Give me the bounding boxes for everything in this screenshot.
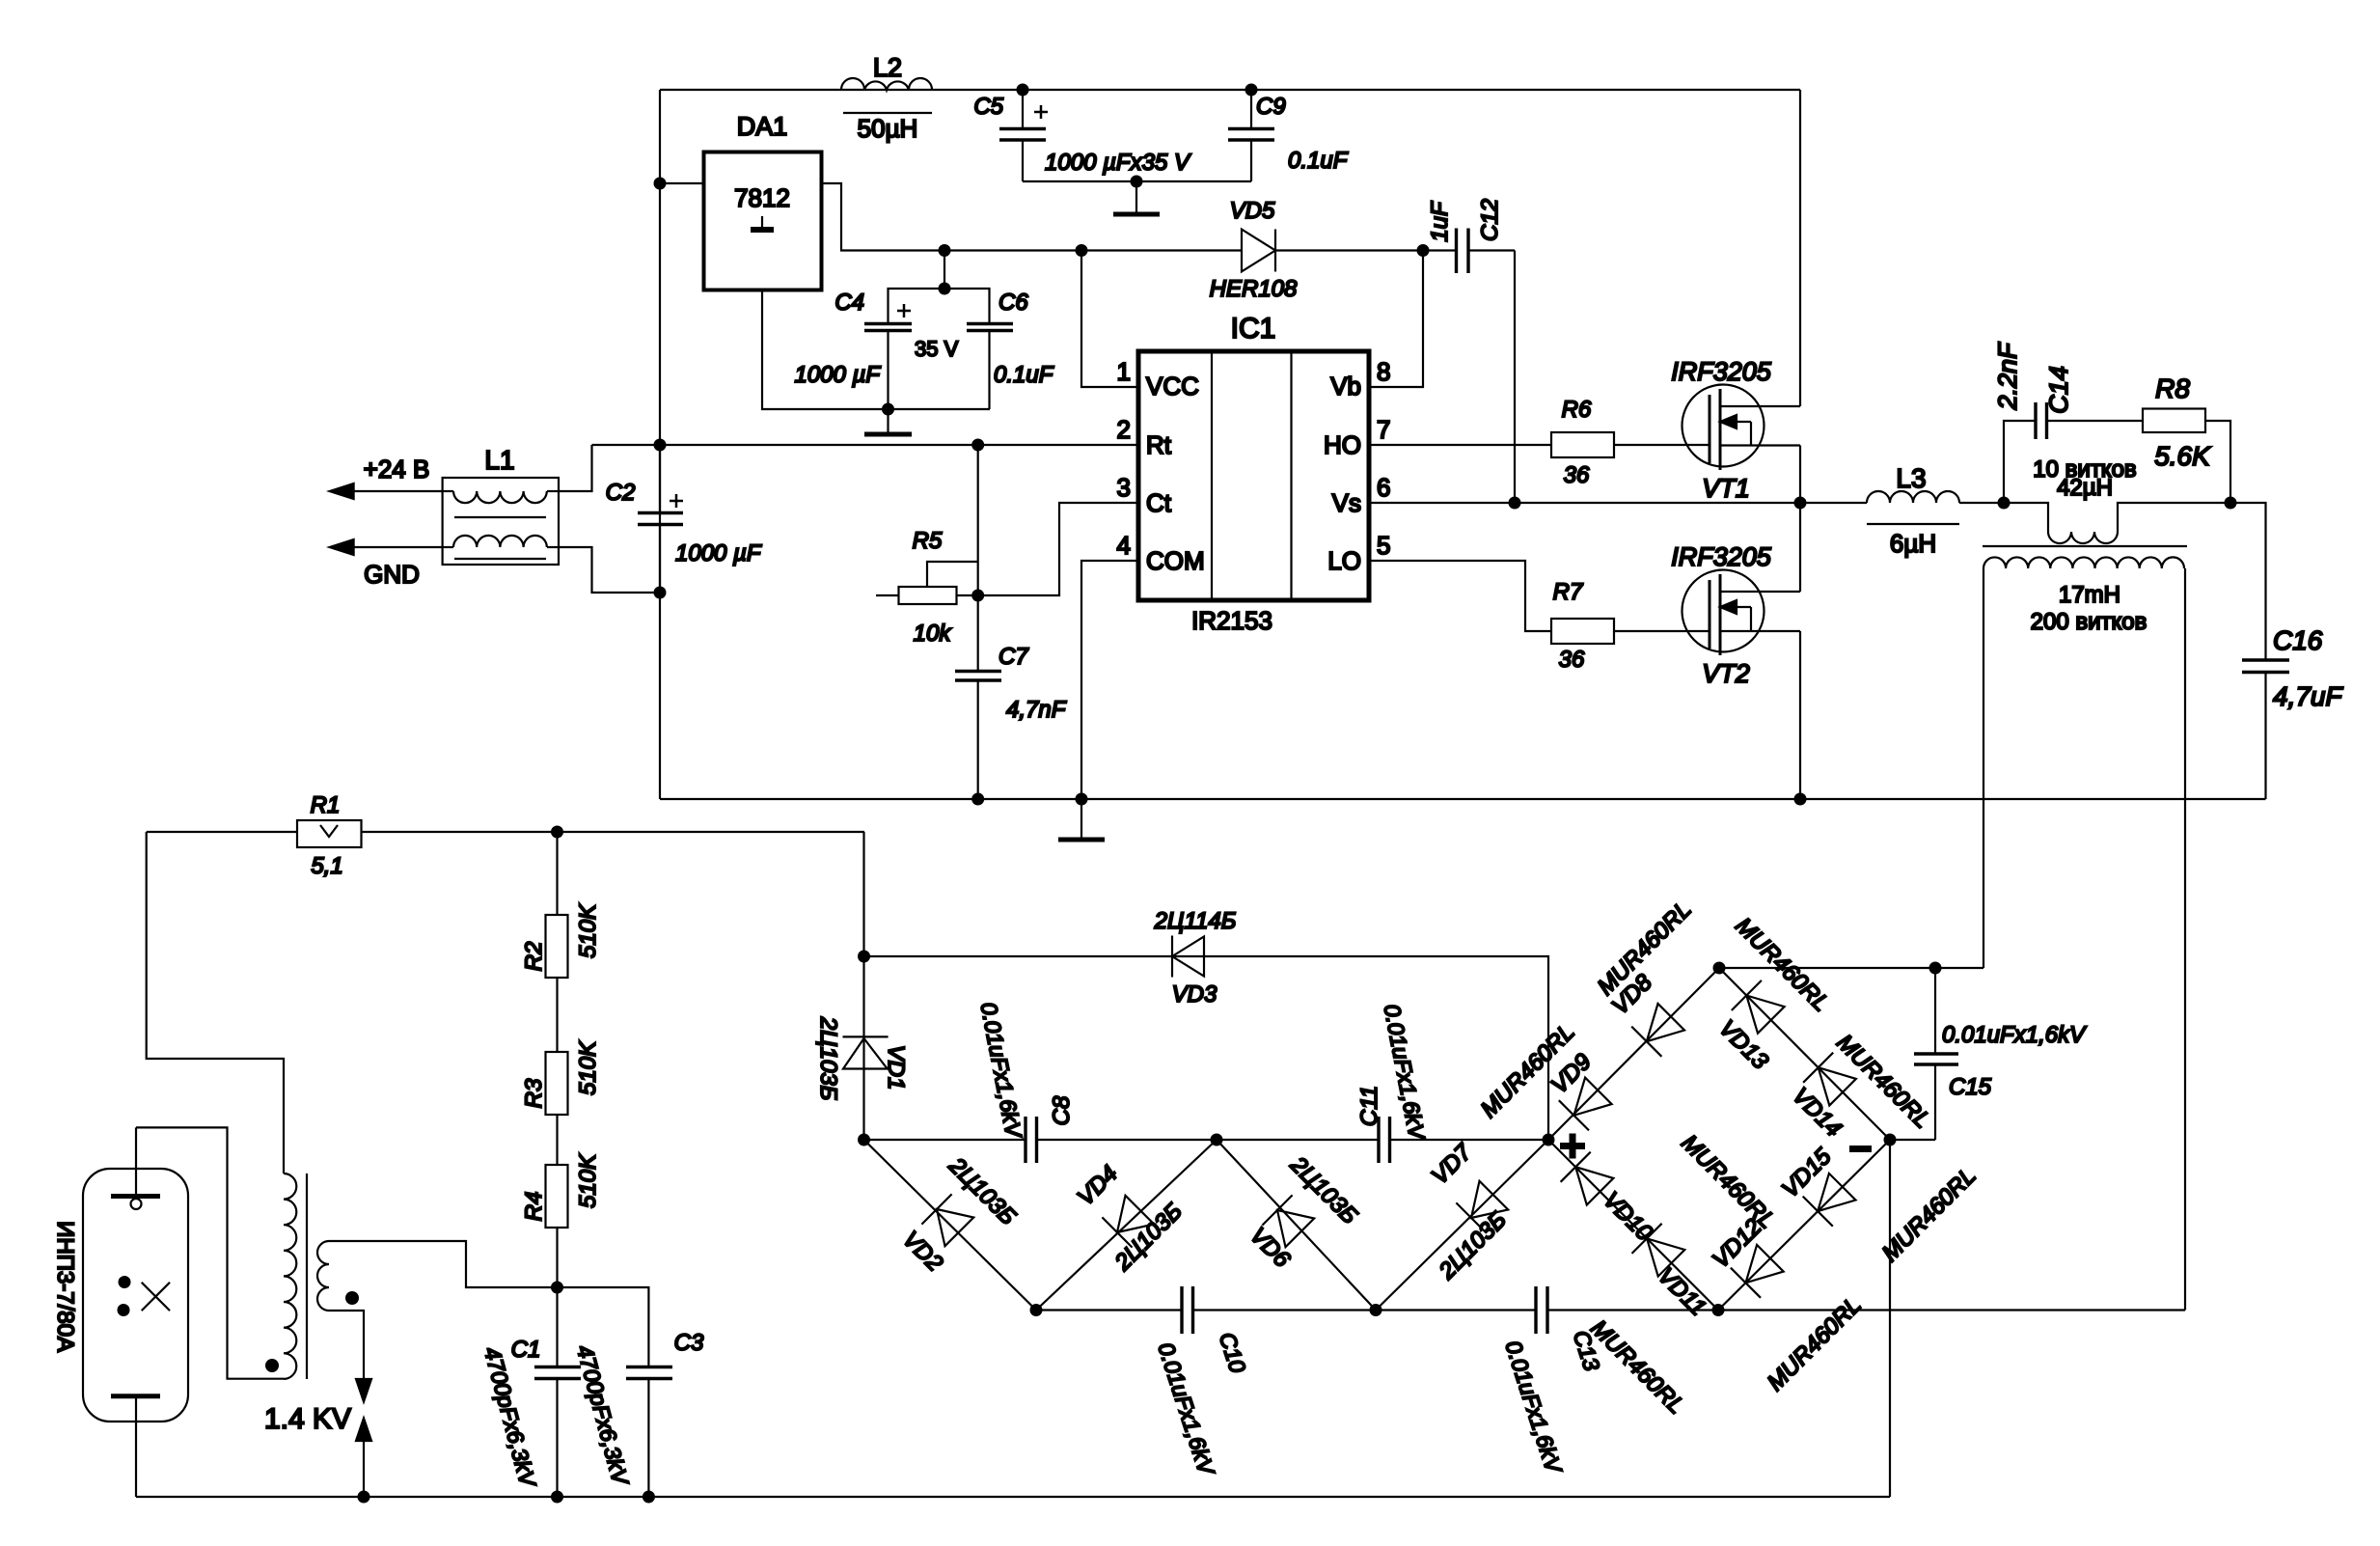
svg-text:510K: 510K — [575, 1040, 601, 1095]
node: C12 on Vs rail — [1509, 497, 1521, 510]
resistor R8 5.6K — [2143, 373, 2211, 471]
transistor VT2 IRF3205 — [1671, 542, 1800, 688]
wire: R8 right to winding node — [2205, 421, 2230, 503]
ground below mid rail — [1058, 799, 1105, 840]
svg-text:1: 1 — [1117, 357, 1131, 386]
diode VD3 2TS114B — [1154, 908, 1237, 1008]
svg-text:510K: 510K — [575, 903, 601, 958]
label plus — [1560, 1134, 1585, 1159]
voltage regulator DA1 7812 — [704, 112, 822, 290]
wire: left vertical from top rail down to mid rail — [659, 90, 661, 799]
capacitor C15 0.01uFx1,6kV — [1914, 968, 2087, 1140]
node: winding right node — [2225, 497, 2237, 510]
wire: LO pin 5 to R7 — [1369, 561, 1551, 631]
wire: HO pin 7 to R6 — [1369, 444, 1551, 446]
svg-text:5,1: 5,1 — [311, 853, 342, 879]
diode VD7 2TS103B — [1427, 1138, 1512, 1284]
wire: diagonal VD4 — [1036, 1140, 1217, 1311]
svg-text:50µH: 50µH — [858, 114, 918, 143]
wire: Vs rail — [1369, 502, 1867, 504]
resistor R2 510K — [521, 903, 601, 978]
svg-text:17mH: 17mH — [2059, 582, 2120, 608]
capacitor C12 1uF — [1427, 199, 1515, 273]
wire: secondary bottom lead — [329, 1311, 364, 1379]
arrow: +24 B output — [330, 483, 354, 499]
node: spark gap on bottom rail — [358, 1491, 370, 1504]
svg-text:COM: COM — [1146, 546, 1205, 575]
wire: C12 down to Vs rail — [1514, 251, 1516, 504]
capacitor C11 0.01uFx1,6kV — [1356, 1002, 1431, 1163]
svg-text:0.1uF: 0.1uF — [994, 362, 1054, 388]
resistor R3 510K — [521, 1040, 601, 1115]
svg-text:2Ц103Б: 2Ц103Б — [815, 1016, 841, 1100]
arrow: GND output — [330, 539, 354, 555]
capacitor C16 4,7uF — [2242, 625, 2343, 799]
node: transformer primary top node — [1998, 497, 2011, 510]
wire: C4/C6 top rail with riser — [889, 251, 990, 324]
svg-text:42µH: 42µH — [2057, 475, 2113, 501]
spark gap 1.4 KV — [264, 1379, 371, 1497]
svg-text:R3: R3 — [521, 1078, 547, 1108]
node: top rail junction at C9 — [1245, 84, 1258, 97]
svg-text:200 витков: 200 витков — [2031, 609, 2147, 635]
capacitor C2 1000uF — [606, 445, 762, 593]
node: VT2 source on mid rail — [1794, 793, 1807, 806]
node: DA1 input junction — [654, 178, 667, 190]
diode VD2 2TS103B — [897, 1152, 1021, 1277]
transformer core line — [1983, 545, 2187, 547]
svg-text:6µH: 6µH — [1890, 529, 1936, 558]
svg-text:IRF3205: IRF3205 — [1671, 357, 1772, 386]
flash lamp INP3-7/80A — [52, 1127, 188, 1497]
wire: minus node down to main bottom rail — [1889, 1140, 1891, 1497]
wire: winding node to C16 — [2230, 503, 2266, 660]
capacitor C8 0.01uFx1,6kV — [976, 1000, 1075, 1163]
svg-text:C8: C8 — [1049, 1095, 1075, 1125]
node: R5/C7/Ct junction — [971, 590, 984, 602]
inductor L3 6uH — [1867, 463, 1959, 558]
wire: riser to C14 branch — [2004, 421, 2036, 503]
diode VD12 MUR460RL — [1708, 1214, 1867, 1396]
wire: VD5 cathode to C12 — [1275, 249, 1456, 251]
wire: VT2 source to mid rail — [1799, 631, 1801, 799]
svg-text:L3: L3 — [1896, 463, 1926, 493]
capacitor C14 2.2nF — [1993, 342, 2073, 439]
svg-text:GND: GND — [364, 560, 420, 589]
node: R2 chain junction on R1 rail — [551, 826, 563, 839]
node: top rail junction at C5 — [1017, 84, 1029, 97]
resistor R4 510K — [521, 1153, 601, 1228]
wire: L1 top to Rt rail riser — [559, 445, 592, 491]
wire: L3 to transformer node — [1959, 502, 2004, 504]
node: C2 top junction — [654, 439, 667, 452]
svg-text:Vs: Vs — [1332, 488, 1361, 517]
wire: diagonal VD7 — [1376, 1140, 1548, 1311]
wire: diagonal VD6 — [1217, 1140, 1376, 1311]
wire: bridge edge top to minus — [1719, 968, 1890, 1140]
wire: 17mH left lead down to bridge top wire — [1983, 568, 1984, 968]
svg-text:2Ц114Б: 2Ц114Б — [1154, 908, 1237, 934]
svg-text:VD1: VD1 — [883, 1045, 909, 1090]
wire: L1 bottom to C2 bottom — [559, 547, 660, 593]
wire: +24V top rail — [660, 89, 1800, 91]
svg-text:IC1: IC1 — [1231, 313, 1276, 345]
svg-text:VT2: VT2 — [1702, 659, 1750, 688]
svg-text:0.01uFx1,6kV: 0.01uFx1,6kV — [1942, 1022, 2087, 1048]
diode VD11 MUR460RL — [1585, 1224, 1710, 1420]
wire: VD3 top rail — [864, 956, 1549, 1140]
capacitor C4 1000uF — [794, 290, 958, 409]
inductor L2 — [841, 53, 932, 143]
wire: mid ground rail — [660, 798, 2266, 800]
wire: GND lead — [336, 546, 443, 548]
svg-text:C2: C2 — [606, 480, 636, 506]
svg-text:1.4 KV: 1.4 KV — [264, 1403, 351, 1435]
svg-text:VT1: VT1 — [1702, 474, 1750, 503]
svg-text:R6: R6 — [1562, 397, 1592, 423]
svg-text:1000 µFx35 V: 1000 µFx35 V — [1045, 150, 1191, 176]
wire: bridge top node to 17mH left lead — [1719, 967, 1983, 969]
wire: VT1 source to Vs node — [1799, 446, 1801, 504]
node: C4 bottom junction — [882, 403, 894, 416]
wire: DA1 left pin — [660, 182, 704, 184]
svg-text:7812: 7812 — [734, 183, 790, 212]
svg-text:4: 4 — [1117, 531, 1131, 560]
svg-text:8: 8 — [1377, 357, 1390, 386]
node: VD4/VD6 top node — [1211, 1134, 1223, 1146]
svg-text:R7: R7 — [1553, 579, 1584, 605]
diode VD1 2TS103B — [815, 956, 909, 1140]
svg-text:L1: L1 — [484, 445, 514, 475]
node: C7 bottom junction — [971, 793, 984, 806]
winding 10 turns 42uH — [2004, 456, 2230, 543]
svg-text:C3: C3 — [674, 1330, 704, 1356]
resistor R7 36 — [1551, 579, 1614, 673]
wire: secondary top lead to C1 junction — [329, 1241, 558, 1287]
resistor R6 36 — [1551, 397, 1614, 488]
wire: Ct pin 3 path — [978, 503, 1138, 595]
ground below C4/C6 rail — [864, 409, 912, 434]
svg-text:C15: C15 — [1949, 1074, 1992, 1100]
svg-text:6: 6 — [1377, 473, 1390, 502]
svg-text:DA1: DA1 — [737, 112, 788, 141]
svg-text:L2: L2 — [873, 53, 902, 82]
node: 12V line junction at VCC branch — [1076, 244, 1088, 257]
diode VD10 MUR460RL — [1561, 1130, 1781, 1247]
node: bridge top node — [1713, 962, 1726, 975]
diode VD4 2TS103B — [1073, 1161, 1188, 1277]
svg-text:R2: R2 — [521, 942, 547, 972]
svg-text:C7: C7 — [999, 644, 1029, 670]
capacitor C10 0.01uFx1,6kV — [1153, 1286, 1250, 1480]
svg-text:C16: C16 — [2273, 625, 2323, 655]
wire: +24V lead — [336, 490, 443, 492]
wire: R1 rail down to VD1 — [862, 832, 864, 956]
wire: Vb pin 8 path — [1369, 251, 1423, 388]
capacitor C5 1000uFx35V — [973, 90, 1191, 181]
diode VD5 HER108 — [1210, 198, 1298, 302]
wire: R5 riser from Rt rail — [977, 445, 979, 595]
svg-text:R4: R4 — [521, 1192, 547, 1222]
wire: minus node to C15 bottom — [1890, 1139, 1935, 1141]
node: C15 top junction — [1929, 962, 1942, 975]
node: half-bridge midpoint — [1794, 497, 1807, 510]
node: C1 on bottom rail — [551, 1491, 563, 1504]
svg-text:R1: R1 — [311, 792, 341, 818]
wire: DA1 output to 12V line — [822, 183, 1243, 251]
ground below C5/C9 rail — [1113, 181, 1160, 214]
svg-text:Ct: Ct — [1146, 488, 1172, 517]
svg-text:7: 7 — [1377, 415, 1390, 444]
svg-text:R8: R8 — [2155, 373, 2190, 403]
capacitor C3 4700pFx6,3kV — [572, 1330, 704, 1497]
wire: VCC pin 1 path — [1081, 251, 1138, 388]
diode VD15 MUR460RL — [1777, 1143, 1982, 1266]
wire: bridge edge plus to top — [1548, 968, 1719, 1140]
node: VD6/VD7 bottom node — [1370, 1304, 1382, 1316]
wire: C14 to R8 — [2047, 420, 2144, 422]
svg-text:510K: 510K — [575, 1153, 601, 1208]
svg-text:C11: C11 — [1356, 1086, 1382, 1126]
svg-text:C4: C4 — [834, 290, 864, 316]
wire: bridge edge bottom to minus — [1718, 1140, 1890, 1311]
transistor VT1 IRF3205 — [1671, 357, 1800, 503]
svg-text:4,7nF: 4,7nF — [1006, 697, 1067, 723]
svg-text:35 V: 35 V — [915, 337, 959, 361]
wire: R1 left lead down to pulse transformer — [147, 832, 284, 1173]
wire: multiplier bottom rail — [1036, 1309, 2185, 1311]
capacitor C9 0.1uF — [1228, 90, 1349, 181]
capacitor C13 0.01uFx1,6kV — [1500, 1286, 1604, 1478]
wire: diagonal VD2 — [864, 1140, 1037, 1311]
wire: 17mH right lead down to multiplier bottom rail — [2184, 568, 2186, 1311]
node: 12V line junction at C4 branch — [939, 244, 951, 257]
capacitor C1 4700pFx6,3kV — [479, 1287, 581, 1497]
wire: main bottom rail — [136, 1496, 1890, 1498]
svg-text:10k: 10k — [914, 621, 953, 647]
svg-text:C1: C1 — [511, 1337, 541, 1363]
wire: DA1 ground pin down to C4/C6 bottom rail — [762, 290, 990, 410]
svg-text:C14: C14 — [2044, 366, 2073, 414]
svg-text:C9: C9 — [1256, 94, 1286, 120]
wire: bridge edge plus to bottom — [1548, 1140, 1718, 1311]
pulse transformer primary — [265, 1173, 296, 1379]
resistor R1 5,1 — [297, 792, 362, 879]
svg-text:5.6K: 5.6K — [2154, 441, 2211, 471]
node: bridge bottom node — [1712, 1304, 1725, 1316]
wire: VT1 drain to top rail — [1799, 90, 1801, 406]
wire: junction to C3 branch — [558, 1287, 649, 1367]
svg-text:+24 B: +24 B — [364, 455, 430, 483]
node: VD2/VD4 bottom node — [1030, 1304, 1043, 1316]
svg-text:4,7uF: 4,7uF — [2273, 681, 2343, 711]
svg-text:HO: HO — [1324, 430, 1361, 459]
svg-text:C5: C5 — [973, 94, 1003, 120]
svg-text:2.2nF: 2.2nF — [1993, 342, 2022, 411]
node: C8 rail left node — [858, 1134, 870, 1146]
svg-text:Vb: Vb — [1330, 372, 1361, 400]
svg-text:2: 2 — [1117, 415, 1131, 444]
wire: R1 rail — [147, 831, 864, 833]
common-mode choke L1 — [443, 445, 559, 565]
IC U1 IR2153 — [1117, 313, 1391, 635]
svg-text:5: 5 — [1377, 531, 1390, 560]
pulse transformer secondary — [317, 1241, 359, 1311]
svg-text:3: 3 — [1117, 473, 1131, 502]
svg-text:1uF: 1uF — [1427, 201, 1453, 242]
svg-text:HER108: HER108 — [1210, 276, 1298, 302]
node: C1/C3 top junction — [551, 1282, 563, 1294]
svg-text:36: 36 — [1564, 462, 1590, 488]
wire: COM pin 4 path — [1081, 561, 1138, 799]
node: COM junction on mid rail — [1076, 793, 1088, 806]
svg-text:VD5: VD5 — [1230, 198, 1275, 224]
node: bridge plus node — [1543, 1134, 1555, 1146]
node: C2 bottom junction — [654, 587, 667, 599]
diode VD6 2TS103B — [1245, 1151, 1362, 1273]
diode VD14 MUR460RL — [1788, 1030, 1936, 1143]
svg-text:36: 36 — [1559, 647, 1585, 673]
svg-text:LO: LO — [1327, 546, 1361, 575]
svg-text:C12: C12 — [1477, 199, 1503, 241]
label minus — [1849, 1146, 1872, 1152]
svg-text:VD3: VD3 — [1172, 981, 1217, 1008]
diode VD8 MUR460RL — [1593, 897, 1697, 1057]
diode VD9 MUR460RL — [1476, 1019, 1612, 1131]
svg-text:1000 µF: 1000 µF — [675, 540, 762, 566]
svg-text:ИНП3-7/80А: ИНП3-7/80А — [52, 1221, 78, 1352]
node: ground junction on C5/C9 rail — [1131, 176, 1143, 188]
node: C4/C6 top rail junction — [939, 283, 951, 295]
node: Rt rail junction at R5 riser — [971, 439, 984, 452]
wire: VT2 drain to Vs node — [1799, 503, 1801, 592]
potentiometer R5 10k — [876, 528, 978, 647]
capacitor C7 4,7nF — [955, 595, 1067, 799]
diode VD13 MUR460RL — [1714, 913, 1835, 1075]
node: VD1 top node — [858, 951, 870, 963]
node: bridge minus node — [1884, 1134, 1897, 1146]
wire: lamp top to pulse transformer primary bottom — [136, 1127, 284, 1378]
svg-text:VCC: VCC — [1146, 372, 1199, 400]
svg-text:Rt: Rt — [1146, 430, 1172, 459]
wire: Rt rail — [592, 444, 1139, 446]
svg-text:C6: C6 — [999, 290, 1028, 316]
winding 17mH 200 turns — [1983, 557, 2184, 635]
capacitor C6 0.1uF — [967, 290, 1054, 409]
wire: C5/C9 bottom rail — [1023, 180, 1251, 182]
svg-text:1000 µF: 1000 µF — [794, 362, 881, 388]
pulse transformer core — [306, 1173, 308, 1379]
svg-text:0.1uF: 0.1uF — [1288, 148, 1349, 174]
svg-text:IR2153: IR2153 — [1191, 606, 1272, 635]
node: junction at Vb riser — [1417, 244, 1430, 257]
wire: R6 to VT1 gate — [1614, 444, 1710, 446]
wire: R7 to VT2 gate — [1614, 630, 1710, 632]
svg-text:R5: R5 — [913, 528, 943, 554]
svg-text:IRF3205: IRF3205 — [1671, 542, 1772, 571]
wire: C8/C11 rail — [864, 1139, 1549, 1141]
wire: R2 chain vertical — [556, 832, 558, 1287]
node: C3 on bottom rail — [643, 1491, 655, 1504]
